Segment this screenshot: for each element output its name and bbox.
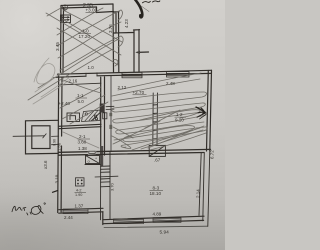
scribble: big room upper strokes: [112, 79, 200, 96]
kitchen bottom wall: [59, 124, 101, 128]
door gap jamb in junction wall: [89, 152, 96, 154]
svg-text:1.37: 1.37: [75, 204, 84, 209]
bay opening marks in main wall: [52, 136, 59, 145]
scribble: crossing steep strokes: [113, 121, 160, 144]
wall: annex right (double with window lines): [113, 4, 119, 72]
small box on middle wall: [103, 113, 107, 119]
dark tick left of wall near 3.10: [53, 191, 58, 193]
dotted square (room 4-2 symbol): [76, 178, 85, 186]
right wall upper (double): [207, 70, 212, 151]
door stubs right of middle wall: [106, 106, 114, 109]
svg-text:3.10: 3.10: [55, 174, 60, 183]
pen arrow scribble right middle: [196, 107, 205, 112]
svg-text:1.60: 1.60: [57, 142, 62, 151]
main left wall (double): [58, 74, 62, 212]
svg-text:2.12: 2.12: [118, 85, 127, 90]
scribble: annex criss-cross NE strokes: [57, 10, 121, 46]
radiator box in annex: [61, 15, 71, 23]
outer right contour: [208, 151, 210, 227]
svg-text:4.23: 4.23: [124, 19, 129, 28]
svg-text:x3.6: x3.6: [43, 160, 48, 169]
main building top wall: [54, 70, 212, 77]
svg-text:+: +: [95, 157, 97, 161]
svg-text:+2.40: +2.40: [59, 101, 71, 106]
wall: link from annex to stair column: [119, 32, 134, 34]
svg-text:2: 2: [64, 5, 67, 10]
pen flourish top right: [134, 0, 142, 17]
svg-text:+2.70: +2.70: [133, 90, 145, 95]
bay dimension line with tick: [13, 135, 45, 138]
bay inner: [32, 126, 50, 149]
svg-text:4-2: 4-2: [76, 189, 82, 193]
svg-text:3.70: 3.70: [110, 182, 115, 191]
svg-text:1.38: 1.38: [78, 146, 87, 151]
dark wall segment lower: [101, 146, 104, 166]
stove box 2 (hatched): [82, 110, 101, 122]
dark blobs on shaft: [109, 113, 112, 116]
handwriting "лит Q" bottom left: [12, 203, 45, 215]
scribble: annex criss-cross SE strokes: [62, 19, 121, 55]
scribble: left curl loops outside wall: [33, 58, 70, 104]
window W3 in bottom-left wall: [63, 209, 88, 214]
wall overshoot left: [54, 76, 58, 78]
room number circle 2: [62, 5, 67, 10]
svg-text:5.94: 5.94: [160, 229, 170, 235]
svg-text:.67: .67: [154, 158, 161, 163]
stair box left (cellar stairs): [85, 156, 100, 165]
svg-text:18.10: 18.10: [150, 191, 162, 196]
svg-text:3.45: 3.45: [55, 42, 60, 51]
window W2 in top wall: [167, 72, 190, 77]
staircase (ladder): [95, 152, 118, 220]
link column (narrow passage wall): [134, 30, 140, 72]
annex outline (top wing, room 1-0): [61, 4, 135, 73]
inner line below top wall (left part): [59, 83, 101, 85]
bottom wall left part: [59, 208, 103, 213]
wall: annex top: [61, 4, 113, 8]
svg-text:3.76: 3.76: [108, 24, 113, 33]
svg-text:+3.00: +3.00: [86, 8, 98, 13]
svg-text:5.0: 5.0: [78, 99, 85, 104]
window W5 in bottom wall: [153, 218, 181, 223]
right wall lower (room 8-3): [199, 151, 210, 227]
svg-text:3.60: 3.60: [78, 140, 87, 145]
interior wall room 2-1 / junction wall: [59, 149, 211, 155]
paper background: [0, 0, 225, 250]
svg-text:2.16: 2.16: [69, 79, 78, 84]
kitchen door swing: [92, 113, 100, 121]
svg-text:2.48: 2.48: [166, 81, 175, 86]
wall: annex top step inner: [97, 7, 114, 13]
stair box right (with diagonal): [149, 145, 165, 156]
black pier in middle wall: [100, 104, 105, 113]
scribble: kitchen faint strokes: [60, 87, 101, 108]
stove box 1: [67, 113, 80, 122]
scribble: big room zigzag fill: [112, 92, 207, 134]
svg-text:17.20: 17.20: [79, 34, 91, 39]
window W1 in top wall: [122, 72, 142, 77]
bay window (left) outer: [13, 120, 59, 154]
window W4 in bottom wall: [114, 219, 144, 224]
svg-text:2-1: 2-1: [79, 134, 86, 139]
svg-text:9.10: 9.10: [175, 117, 184, 122]
bottom wall big room: [103, 216, 208, 227]
svg-text:4.89: 4.89: [153, 211, 162, 216]
middle vertical wall: [100, 77, 105, 166]
wall: annex left (double): [61, 6, 64, 73]
scribble: annex right turn loops: [118, 10, 122, 20]
svg-text:8-3: 8-3: [153, 186, 160, 191]
svg-text:6.72: 6.72: [210, 150, 215, 159]
svg-text:1-0: 1-0: [82, 29, 89, 34]
scribble: faint stroke near top-left corner: [47, 8, 61, 16]
svg-text:2.14: 2.14: [196, 189, 201, 198]
svg-text:1.0: 1.0: [88, 65, 95, 70]
door arrow (entrance pointer): [135, 51, 148, 54]
svg-text:0.96: 0.96: [53, 139, 57, 146]
scribble: faint stroke room 2-1: [63, 132, 99, 148]
big room left line: [110, 76, 112, 151]
scribble: big room ellipse loops: [123, 126, 195, 142]
svg-text:1-1: 1-1: [77, 93, 84, 98]
svg-text:2.44: 2.44: [64, 215, 73, 220]
scribble: strokes near chimney to junction: [132, 128, 200, 150]
chimney column: [153, 93, 158, 145]
svg-text:1.90: 1.90: [75, 193, 82, 197]
big room (8-3) left wall lower: [102, 212, 104, 225]
door jambs (1.0 opening): [86, 73, 97, 77]
